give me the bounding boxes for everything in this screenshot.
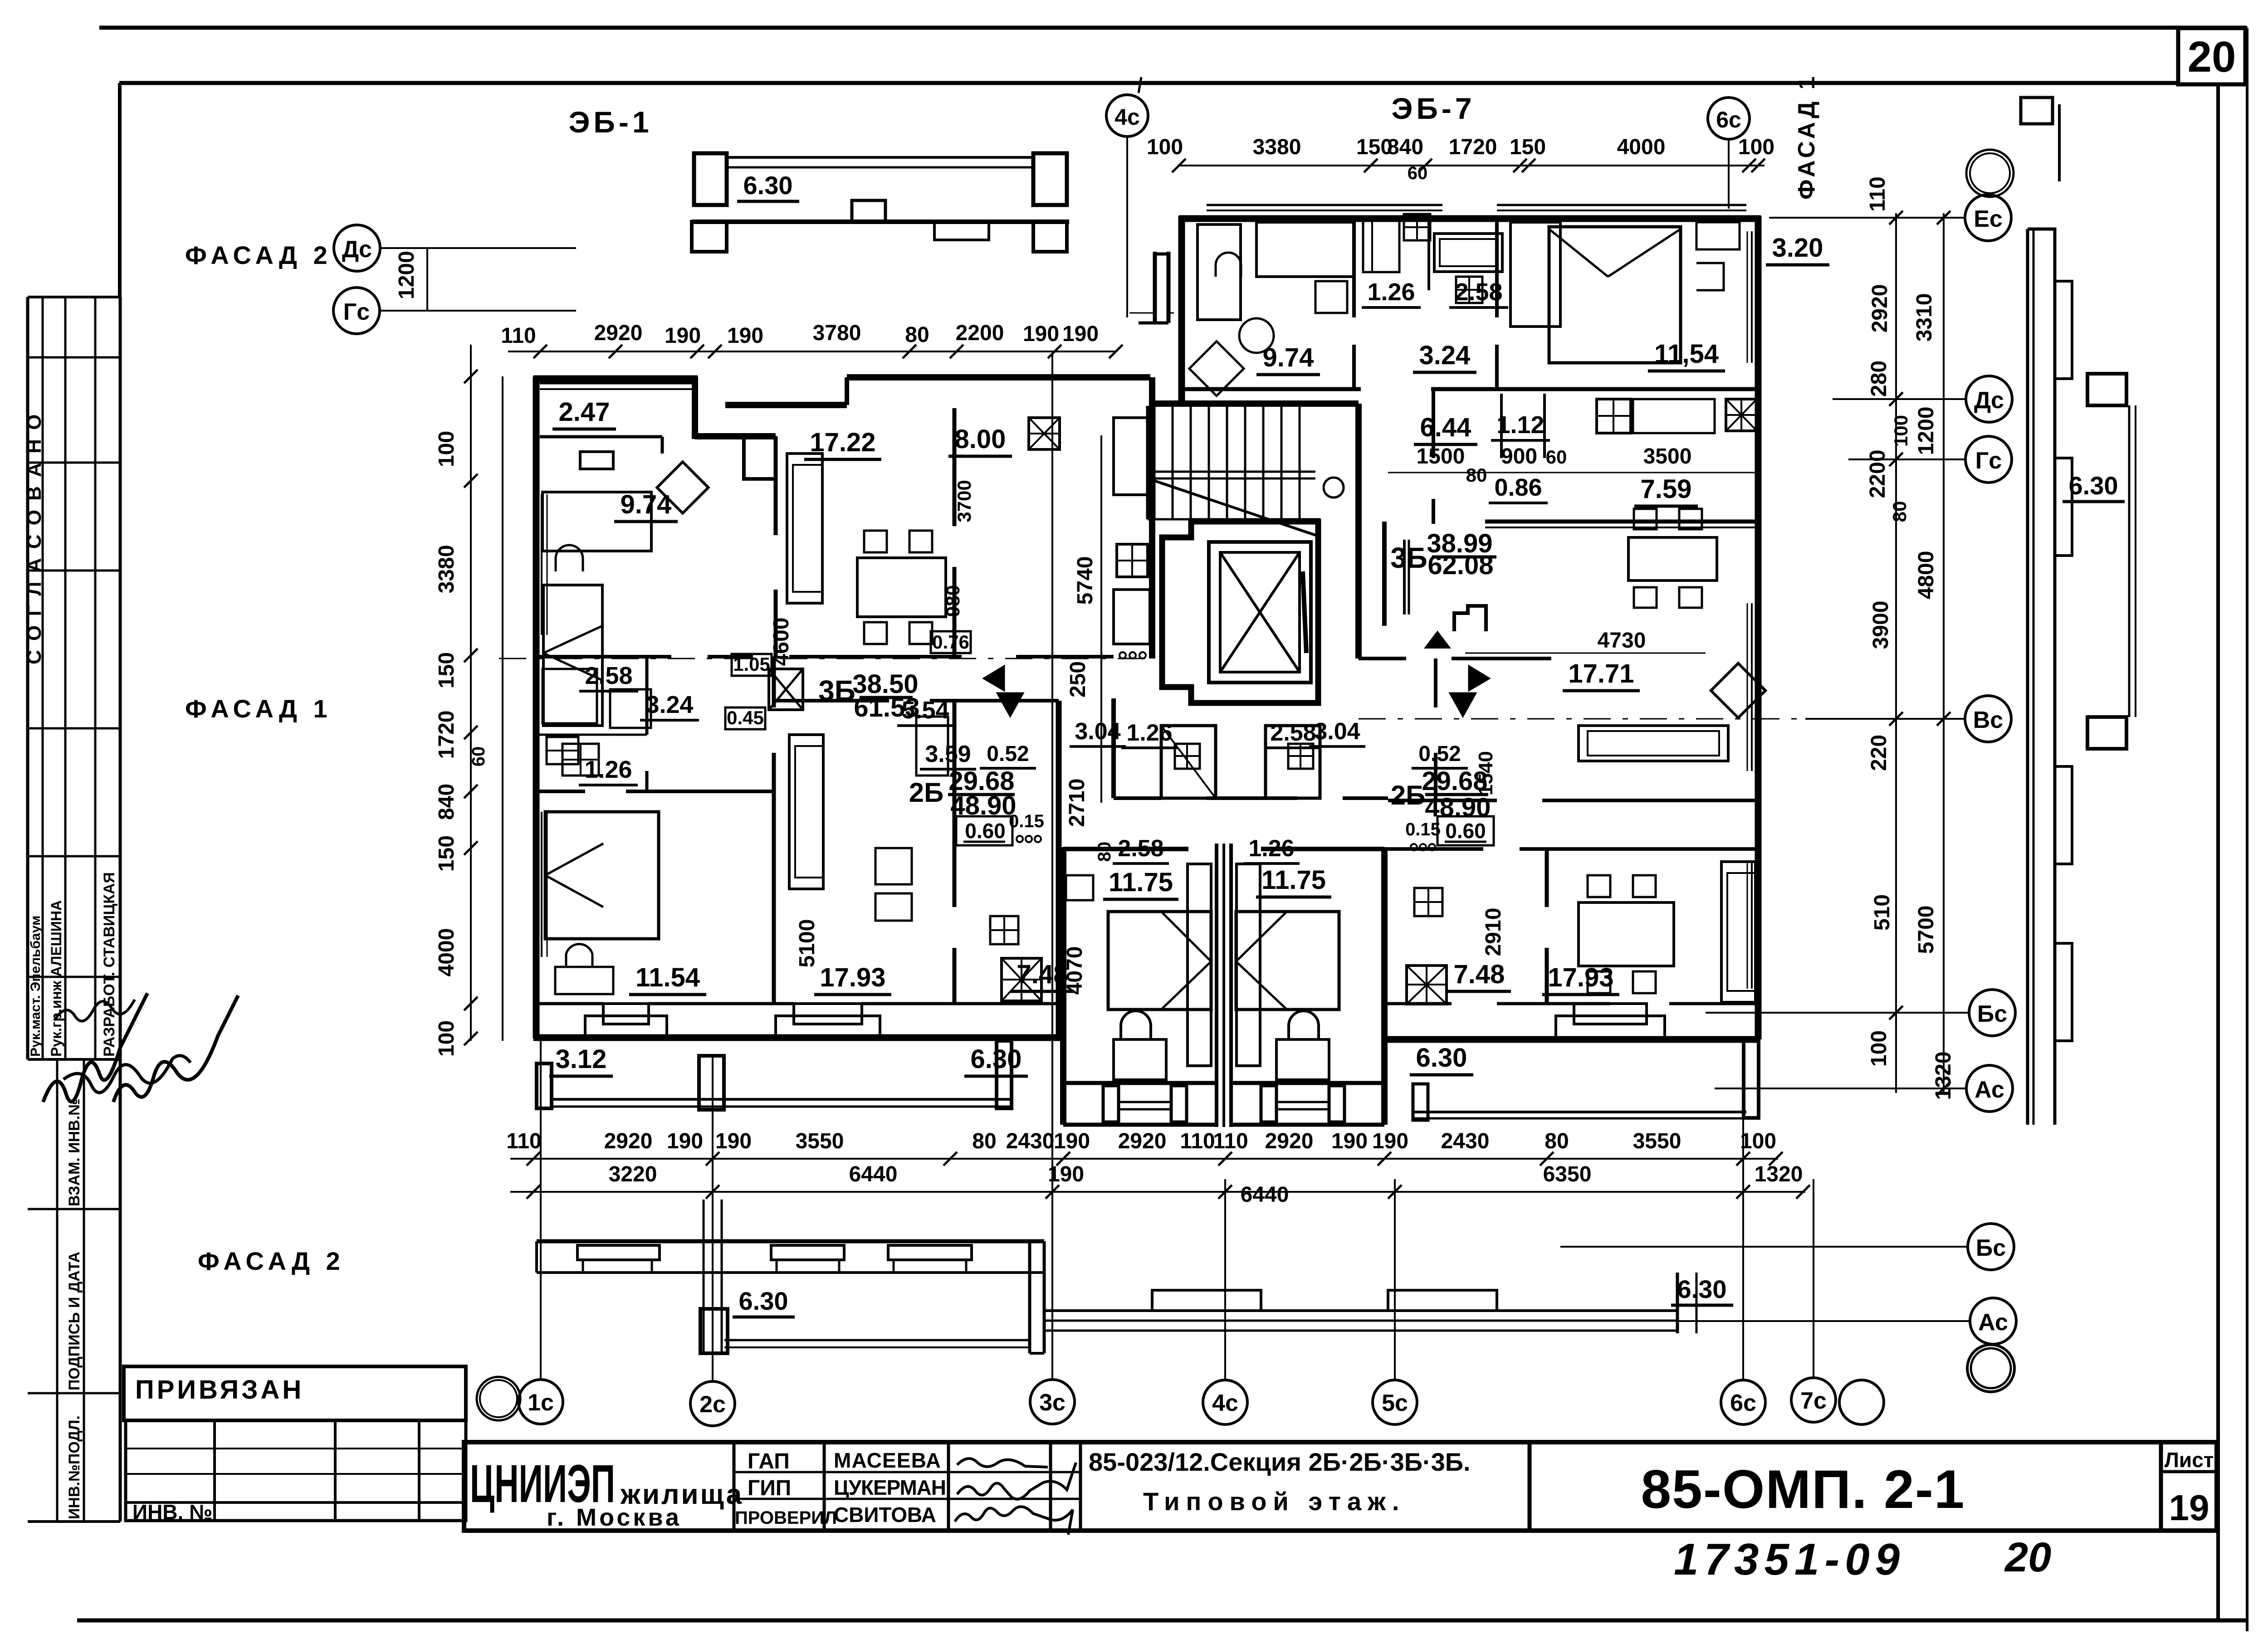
svg-text:190: 190 (1062, 322, 1099, 346)
titleblock row lines (734, 1471, 1080, 1473)
svg-text:2920: 2920 (1265, 1129, 1314, 1153)
svg-text:Ас: Ас (1978, 1309, 2008, 1336)
circle 1c double (477, 1377, 520, 1420)
balcony 2.47 bottom edge (540, 435, 662, 439)
ПРИВЯЗАН box (124, 1366, 466, 1420)
facade right windows (1152, 1290, 1261, 1311)
EB-7 wall 9.74|bath (1352, 219, 1356, 317)
svg-text:2910: 2910 (1481, 908, 1505, 956)
EB-7 wall bath|11.54 (1495, 219, 1499, 317)
svg-text:1.26: 1.26 (1126, 720, 1172, 746)
svg-text:80: 80 (972, 1129, 996, 1153)
svg-text:6440: 6440 (849, 1162, 898, 1186)
svg-text:Типовой этаж.: Типовой этаж. (1143, 1487, 1405, 1516)
17.71 dim (1465, 653, 1706, 654)
svg-text:2Б: 2Б (1391, 780, 1426, 810)
wardrobe strips beside party wall (1188, 864, 1211, 1066)
entry door zigzag (1454, 606, 1486, 631)
svg-text:Бс: Бс (1977, 1001, 2007, 1027)
svg-text:1.05: 1.05 (733, 654, 770, 675)
circle 7c (1791, 1378, 1836, 1422)
svg-text:85-ОМП. 2-1: 85-ОМП. 2-1 (1641, 1459, 1965, 1520)
svg-text:11.75: 11.75 (1109, 868, 1173, 897)
wall 11.54 right (772, 657, 776, 707)
svg-text:150: 150 (435, 835, 459, 872)
svg-text:1с: 1с (528, 1390, 554, 1416)
bottom dim chain row1 (510, 1158, 1778, 1160)
svg-text:6.44: 6.44 (1420, 413, 1471, 442)
svg-text:20: 20 (2004, 1534, 2051, 1580)
svg-text:2920: 2920 (1868, 284, 1892, 333)
svg-text:6с: 6с (1730, 1390, 1756, 1416)
svg-text:190: 190 (1054, 1129, 1090, 1153)
circle Дс left (334, 225, 380, 271)
svg-text:60: 60 (1546, 446, 1567, 468)
svg-text:ГИП: ГИП (748, 1476, 791, 1500)
svg-text:80: 80 (1095, 842, 1114, 862)
svg-text:7.48: 7.48 (1017, 960, 1068, 989)
kitchen 7.48 right units (1407, 966, 1447, 1004)
EB-7 room 9.74 furniture (1198, 224, 1241, 320)
svg-text:17.93: 17.93 (820, 963, 885, 992)
bed 2 left column (543, 585, 602, 726)
right column: double circle top (1966, 150, 2014, 197)
svg-text:20: 20 (2188, 33, 2236, 81)
right vertical dim chains (1895, 213, 1897, 1093)
room 17.71 bottom wall y1765 (1388, 799, 1497, 802)
svg-text:3.24: 3.24 (645, 691, 693, 718)
svg-text:17.22: 17.22 (810, 428, 875, 457)
svg-text:3380: 3380 (435, 545, 459, 594)
top-left dim chain line (508, 351, 1116, 352)
svg-text:3.12: 3.12 (556, 1044, 607, 1074)
svg-text:ЭБ-1: ЭБ-1 (568, 105, 652, 139)
left vertical dim chains (470, 345, 472, 1041)
svg-text:3900: 3900 (1869, 601, 1893, 649)
svg-text:ИНВ.№ПОДЛ.: ИНВ.№ПОДЛ. (66, 1415, 83, 1519)
svg-text:1.26: 1.26 (1248, 835, 1294, 862)
furniture: bed room 9.74 left (543, 492, 651, 551)
svg-text:1.26: 1.26 (1367, 278, 1415, 306)
svg-text:Гс: Гс (343, 299, 370, 325)
arrows entry right (1469, 666, 1490, 691)
svg-text:3310: 3310 (1912, 293, 1936, 342)
circle Гс left (333, 288, 380, 334)
table chairs 17.22 (857, 558, 946, 617)
top-right dim chain line EB-7 (1179, 165, 1765, 166)
svg-text:2.58: 2.58 (1455, 278, 1502, 306)
EB-7 kitchen dims (1388, 472, 1760, 473)
svg-text:190: 190 (727, 324, 763, 348)
svg-text:100: 100 (1738, 135, 1774, 159)
facade EB-1 label strip: left end block (694, 153, 727, 205)
step wall at x1532 (692, 376, 698, 439)
svg-text:5740: 5740 (1073, 556, 1097, 605)
svg-text:11,54: 11,54 (1654, 339, 1719, 369)
dashed axis top EB-7 (1129, 312, 1182, 314)
circle Бс main (1969, 990, 2015, 1036)
cabinets 17.93 (916, 717, 948, 776)
TITLEBLOCK (464, 1442, 2217, 1584)
dashed axis left section (499, 658, 1152, 659)
svg-text:3500: 3500 (1643, 444, 1692, 468)
sofa 17.22 (787, 454, 822, 603)
svg-text:4600: 4600 (769, 618, 793, 666)
diamond table 9.74 (657, 462, 708, 513)
svg-text:Вс: Вс (1973, 707, 2003, 733)
svg-text:3с: 3с (1039, 1390, 1066, 1416)
kitchen 8.00 units (1029, 418, 1060, 449)
svg-text:3.04: 3.04 (1075, 718, 1120, 745)
svg-text:1500: 1500 (1417, 444, 1465, 468)
svg-text:3780: 3780 (813, 321, 861, 345)
svg-text:17.71: 17.71 (1568, 659, 1634, 688)
svg-text:29.68: 29.68 (1422, 766, 1487, 796)
svg-text:100: 100 (1740, 1129, 1776, 1153)
svg-text:8.00: 8.00 (955, 424, 1006, 454)
stair left wall (1146, 406, 1149, 519)
svg-text:2430: 2430 (1441, 1129, 1490, 1153)
EB-7 window rails top (1207, 204, 1442, 206)
svg-text:ФАСАД 2: ФАСАД 2 (198, 1247, 345, 1275)
svg-text:190: 190 (667, 1129, 703, 1153)
party double wall (1215, 844, 1218, 1127)
svg-text:г. Москва: г. Москва (547, 1504, 682, 1531)
svg-text:48.90: 48.90 (1425, 793, 1491, 822)
entry hall walls left apartment (1059, 655, 1114, 658)
signature scribbles (957, 1458, 1048, 1467)
EB-7 bed 11.54 (1510, 222, 1560, 327)
corridor bottom wall y1760 (1114, 796, 1161, 800)
stair diagonal (1154, 481, 1315, 535)
balcony 2.47 rails (540, 382, 694, 385)
titleblock verticals (733, 1442, 736, 1531)
svg-text:ПРОВЕРИЛ: ПРОВЕРИЛ (735, 1508, 837, 1528)
svg-text:4с: 4с (1114, 104, 1140, 130)
svg-text:510: 510 (1870, 894, 1894, 931)
svg-text:5700: 5700 (1914, 906, 1938, 954)
EB-7 kitchen fixtures right (1597, 399, 1631, 433)
svg-text:2.58: 2.58 (585, 662, 632, 689)
svg-text:3380: 3380 (1253, 135, 1301, 159)
svg-text:4с: 4с (1212, 1390, 1238, 1416)
svg-text:80: 80 (905, 323, 929, 347)
svg-text:100: 100 (1147, 135, 1183, 159)
right outer wall (1755, 216, 1762, 490)
svg-text:6440: 6440 (1241, 1183, 1289, 1207)
circle 6c top (1708, 98, 1750, 139)
bed room 11.54 left (545, 812, 659, 939)
window bays right (1574, 1004, 1647, 1024)
elevator shaft outer (1162, 522, 1318, 703)
svg-text:5с: 5с (1382, 1390, 1408, 1416)
kitchen row walls right (1432, 389, 1435, 458)
top wall kitchen y832 (847, 374, 1150, 380)
facade rails left (724, 1339, 1029, 1341)
svg-text:2430: 2430 (1006, 1129, 1055, 1153)
wall 7.48R|17.93R x3410 (1545, 849, 1549, 907)
sofa 17.93 left (789, 735, 823, 889)
svg-text:1720: 1720 (435, 711, 459, 759)
circle Бс facade (1968, 1224, 2014, 1270)
axis leader lines bottom (540, 1041, 542, 1379)
beds 11.75 (1108, 912, 1211, 1010)
svg-text:2920: 2920 (1118, 1129, 1167, 1153)
wall x3165 entry lower (1434, 658, 1437, 707)
svg-text:2920: 2920 (604, 1129, 653, 1153)
corridor wall x2334 lower (1056, 701, 1062, 1039)
core top wall (1152, 400, 1359, 407)
svg-text:17351-09: 17351-09 (1674, 1534, 1905, 1584)
STAMP-LEFT (23, 241, 466, 1524)
svg-text:3220: 3220 (609, 1162, 657, 1186)
partition y1545 mid (774, 699, 889, 702)
svg-text:Ас: Ас (1975, 1077, 2004, 1103)
svg-text:1720: 1720 (1449, 135, 1497, 159)
EB-1 lower wall (692, 219, 1069, 224)
titleblock outer frame (464, 1442, 2217, 1531)
EB-7 bath fixtures (1363, 220, 1399, 272)
svg-text:110: 110 (1213, 1129, 1248, 1153)
EB-7 bath divider (1427, 219, 1430, 290)
svg-text:0.76: 0.76 (932, 631, 969, 653)
svg-text:4730: 4730 (1598, 629, 1646, 653)
wall 17.22|kitchen x2100 upper (953, 408, 957, 526)
svg-text:110: 110 (506, 1129, 541, 1153)
svg-text:6.30: 6.30 (743, 171, 793, 200)
bottom facade line 2 (537, 1271, 1044, 1274)
svg-text:4800: 4800 (1914, 551, 1938, 600)
svg-text:9.74: 9.74 (621, 490, 672, 519)
lobby circle (1324, 478, 1344, 498)
EB-1 balcony rails (727, 156, 1034, 159)
svg-text:190: 190 (1048, 1162, 1084, 1186)
svg-text:ФАСАД 2: ФАСАД 2 (185, 241, 332, 269)
svg-text:6.30: 6.30 (2069, 471, 2118, 500)
stamp column grid upper (26, 297, 29, 1059)
svg-text:3.04: 3.04 (1314, 718, 1360, 745)
svg-text:Рук.гр.инж АЛЕШИНА: Рук.гр.инж АЛЕШИНА (48, 900, 64, 1057)
dashed axis right section (1359, 718, 1805, 720)
svg-text:2710: 2710 (1065, 779, 1089, 827)
svg-text:ЦУКЕРМАН: ЦУКЕРМАН (834, 1476, 946, 1499)
right apartment partition y1452 (1359, 657, 1406, 660)
entry hall walls (1382, 522, 1387, 626)
svg-text:3Б: 3Б (818, 674, 855, 707)
small table under ПРИВЯЗАН (126, 1420, 466, 1521)
svg-text:150: 150 (1510, 135, 1546, 159)
svg-text:100: 100 (435, 431, 459, 467)
svg-text:6350: 6350 (1543, 1162, 1592, 1186)
circle 6c (1721, 1380, 1765, 1424)
svg-text:2.47: 2.47 (559, 397, 610, 427)
core right wall (1355, 404, 1362, 658)
partition y1872 right (1384, 847, 1483, 851)
rooms inner bottom right y2213 (1384, 1002, 1452, 1005)
svg-text:0.45: 0.45 (727, 707, 764, 728)
right inner border (2216, 84, 2220, 1620)
PLAN (499, 98, 2136, 1353)
svg-text:4000: 4000 (1617, 135, 1666, 159)
svg-text:2Б: 2Б (909, 777, 944, 808)
svg-text:ИНВ. №: ИНВ. № (132, 1500, 212, 1524)
svg-text:Ес: Ес (1974, 206, 2003, 232)
svg-text:840: 840 (435, 784, 459, 820)
svg-text:220: 220 (1867, 735, 1891, 771)
signature squiggles (43, 993, 147, 1102)
axis leader lines right (1769, 217, 1965, 219)
svg-text:2.58: 2.58 (1118, 835, 1163, 862)
svg-text:6.30: 6.30 (1416, 1043, 1467, 1073)
DIMS (435, 135, 1955, 1207)
circle 5c (1373, 1380, 1417, 1424)
bath fixtures left cluster (543, 669, 597, 723)
partition y1445 left (533, 655, 671, 658)
svg-text:4000: 4000 (435, 928, 459, 977)
bath shelf (533, 734, 647, 736)
block balcony outer (1063, 1123, 1217, 1127)
balcony 3.12 strip (537, 1063, 552, 1108)
top wall 17.22 y893 (725, 402, 847, 408)
AXES (333, 74, 2016, 1426)
room 17.71 furniture (1711, 663, 1765, 718)
2c pier facade (703, 1200, 705, 1353)
svg-text:ВЗАМ. ИНВ.№: ВЗАМ. ИНВ.№ (66, 1098, 83, 1206)
svg-text:7.48: 7.48 (1454, 960, 1505, 989)
wall 17.93|7.48 x2104 lower (953, 701, 957, 907)
circle Вс (1965, 696, 2011, 742)
svg-text:Дс: Дс (342, 236, 372, 263)
svg-text:150: 150 (435, 652, 459, 688)
svg-text:РАЗРАБОТ. СТАВИЦКАЯ: РАЗРАБОТ. СТАВИЦКАЯ (101, 872, 118, 1057)
elevator cab (1209, 542, 1311, 683)
bottom outer wall right y2292 (1384, 1036, 1760, 1043)
svg-text:48.90: 48.90 (950, 791, 1016, 820)
svg-text:6.30: 6.30 (1677, 1275, 1727, 1303)
facade right end post (1676, 1273, 1679, 1333)
svg-text:100: 100 (1890, 415, 1911, 447)
svg-text:2920: 2920 (594, 321, 643, 345)
svg-text:190: 190 (665, 324, 701, 348)
EB-1 right end block (1033, 153, 1067, 205)
svg-text:62.08: 62.08 (1427, 551, 1493, 580)
svg-text:19: 19 (2169, 1488, 2209, 1528)
svg-text:110: 110 (1180, 1129, 1215, 1153)
svg-text:2200: 2200 (1866, 450, 1890, 498)
block rooms bottom wall (1063, 1081, 1217, 1085)
circle Дс right (1966, 376, 2012, 422)
svg-text:980: 980 (942, 585, 963, 617)
wall step down to room 9.74 (742, 436, 746, 481)
left section top wall (533, 376, 698, 382)
svg-text:1320: 1320 (1931, 1052, 1955, 1100)
svg-text:85-023/12.Секция 2Б·2Б·3Б·3Б.: 85-023/12.Секция 2Б·2Б·3Б·3Б. (1089, 1448, 1471, 1476)
facade windows left half (577, 1245, 660, 1260)
svg-text:3550: 3550 (1633, 1129, 1681, 1153)
svg-text:ЭБ-7: ЭБ-7 (1391, 92, 1475, 125)
svg-text:ГАП: ГАП (748, 1449, 790, 1473)
svg-text:7с: 7с (1800, 1388, 1827, 1414)
facade right rails (1044, 1309, 1677, 1312)
svg-text:1.26: 1.26 (584, 756, 632, 783)
circle 3c (1030, 1380, 1075, 1424)
svg-text:СВИТОВА: СВИТОВА (834, 1503, 936, 1527)
svg-text:0.52: 0.52 (1418, 742, 1461, 766)
svg-text:0.15: 0.15 (1405, 819, 1441, 839)
block top wall (1063, 847, 1188, 851)
left section right wall upper (1149, 377, 1155, 658)
right facade top jog (2028, 229, 2055, 254)
circle Ас facade (1970, 1298, 2016, 1344)
svg-text:2.58: 2.58 (1270, 720, 1316, 746)
kitchen 7.48 left units (1002, 958, 1041, 1001)
svg-text:0.52: 0.52 (987, 742, 1029, 766)
stamp column grid lower (56, 1059, 59, 1522)
core left wall (1111, 698, 1116, 798)
kitchen bottom wall y1150 (1485, 520, 1758, 524)
entry triangle mark (1425, 631, 1450, 648)
svg-text:1320: 1320 (1755, 1162, 1803, 1186)
svg-text:60: 60 (1408, 163, 1428, 183)
svg-text:840: 840 (1387, 135, 1423, 159)
svg-text:11.54: 11.54 (635, 963, 700, 992)
EB-7 top outer wall (1179, 215, 1761, 222)
svg-text:ФАСАД 1: ФАСАД 1 (185, 694, 332, 723)
svg-text:2200: 2200 (956, 321, 1004, 345)
svg-text:2с: 2с (699, 1391, 726, 1418)
partition y1740 (533, 790, 585, 793)
svg-text:250: 250 (1066, 661, 1090, 697)
circle 4c' top (1106, 95, 1148, 137)
svg-text:ПРИВЯЗАН: ПРИВЯЗАН (135, 1375, 304, 1405)
double circle bottom right (1967, 1345, 2014, 1392)
arrows entry left (983, 666, 1004, 691)
svg-text:80: 80 (1889, 501, 1910, 522)
circle Ес (1965, 195, 2011, 241)
vestibule walls (1153, 252, 1157, 323)
svg-text:Лист: Лист (2165, 1448, 2214, 1472)
circle 4c (1203, 1380, 1247, 1424)
circle 2c (690, 1381, 735, 1426)
circle Ас main (1966, 1065, 2013, 1112)
svg-text:ПОДПИСЬ И ДАТА: ПОДПИСЬ И ДАТА (66, 1252, 83, 1390)
bottom dim chain row2 (510, 1191, 1805, 1193)
svg-text:100: 100 (435, 1020, 459, 1057)
closet 1.12 walls (1500, 394, 1503, 458)
svg-text:900: 900 (1501, 444, 1537, 468)
svg-text:Рук.маст. Эпельбаум: Рук.маст. Эпельбаум (28, 916, 43, 1057)
EB-7 left outer wall (1178, 216, 1185, 404)
middle vertical dims (1100, 435, 1102, 803)
closet x-cross left (769, 669, 803, 710)
bottom outer wall left section y2288 (533, 1034, 1061, 1041)
stair flight divider (1148, 471, 1315, 473)
svg-text:80: 80 (1466, 464, 1487, 486)
svg-text:3.20: 3.20 (1772, 233, 1823, 263)
wall 9.74 right (774, 436, 778, 535)
svg-text:0.60: 0.60 (1445, 819, 1486, 843)
svg-text:МАСЕЕВА: МАСЕЕВА (834, 1449, 941, 1472)
center bottom block outer (1060, 847, 1066, 1125)
svg-text:190: 190 (715, 1129, 752, 1153)
svg-text:С О Г Л А С О В А Н О: С О Г Л А С О В А Н О (23, 413, 45, 664)
svg-text:5100: 5100 (795, 919, 819, 968)
EB-7 bottom wall right part (1431, 387, 1761, 391)
svg-text:6.30: 6.30 (739, 1287, 788, 1315)
svg-text:3700: 3700 (953, 480, 975, 522)
right outer border (2246, 28, 2248, 1631)
svg-text:3.24: 3.24 (1419, 341, 1471, 370)
